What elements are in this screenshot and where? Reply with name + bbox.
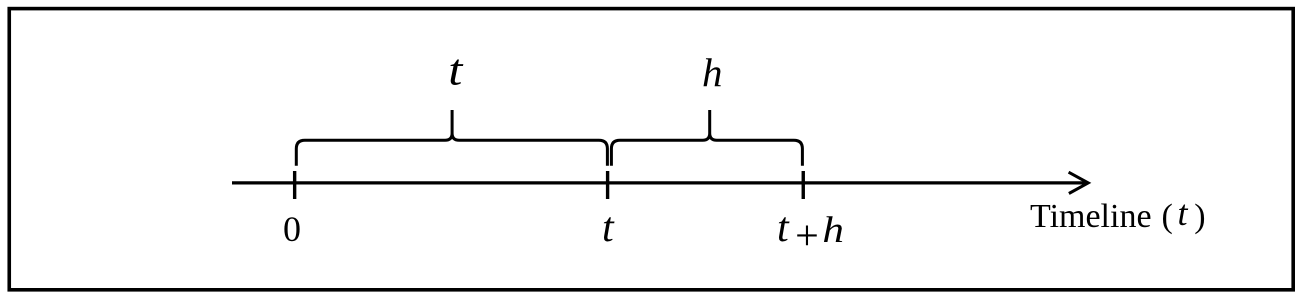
svg-text:+: +: [795, 213, 819, 259]
arrowhead: [1069, 172, 1089, 193]
tick at t: [606, 171, 609, 199]
svg-text:h: h: [822, 210, 844, 251]
tick at 0: [293, 171, 296, 199]
svg-text:(: (: [1162, 198, 1173, 235]
svg-text:t: t: [1178, 193, 1189, 233]
svg-text:t: t: [448, 46, 464, 95]
svg-text:t: t: [777, 205, 790, 251]
svg-text:Timeline: Timeline: [1030, 198, 1152, 235]
timeline axis line: [232, 181, 1085, 184]
tick at t+h: [802, 171, 805, 199]
svg-text:h: h: [702, 50, 723, 95]
svg-text:t: t: [602, 205, 615, 251]
brace over [t,t+h]: [611, 110, 802, 166]
svg-text:0: 0: [283, 209, 301, 249]
brace over [0,t]: [296, 110, 607, 166]
svg-text:): ): [1194, 198, 1205, 235]
